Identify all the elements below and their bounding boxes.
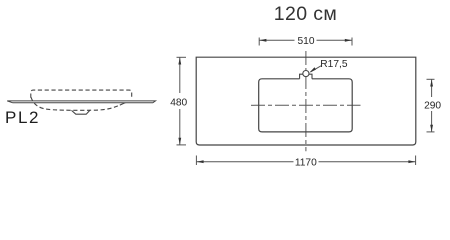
basin right edge visible (solid diagonal): [120, 101, 129, 105]
svg-text:480: 480: [170, 98, 187, 109]
svg-text:510: 510: [298, 36, 315, 47]
dim 510 top: [259, 38, 352, 46]
dim 290 right: [427, 79, 435, 132]
horizontal centerline: [251, 104, 361, 106]
countertop slab (side view): [7, 101, 155, 103]
svg-text:PL2: PL2: [5, 108, 40, 127]
dim 1170 bottom: [196, 156, 415, 166]
svg-text:120 см: 120 см: [274, 3, 338, 25]
basin rim hidden outline (dashed): [31, 90, 132, 98]
basin bowl hidden outline (dashed): [31, 97, 120, 110]
svg-text:290: 290: [424, 101, 441, 112]
leader R17,5: [311, 66, 322, 72]
faucet notch jogs: [300, 74, 312, 79]
sink cutout rounded rect: [259, 79, 353, 132]
countertop outline (top view): [196, 57, 416, 145]
vertical centerline: [305, 51, 307, 151]
dim 480 left: [177, 57, 187, 145]
faucet hole circle: [303, 71, 309, 77]
drain recess (solid): [72, 110, 90, 114]
svg-text:R17,5: R17,5: [320, 59, 348, 70]
svg-text:1170: 1170: [295, 157, 317, 168]
